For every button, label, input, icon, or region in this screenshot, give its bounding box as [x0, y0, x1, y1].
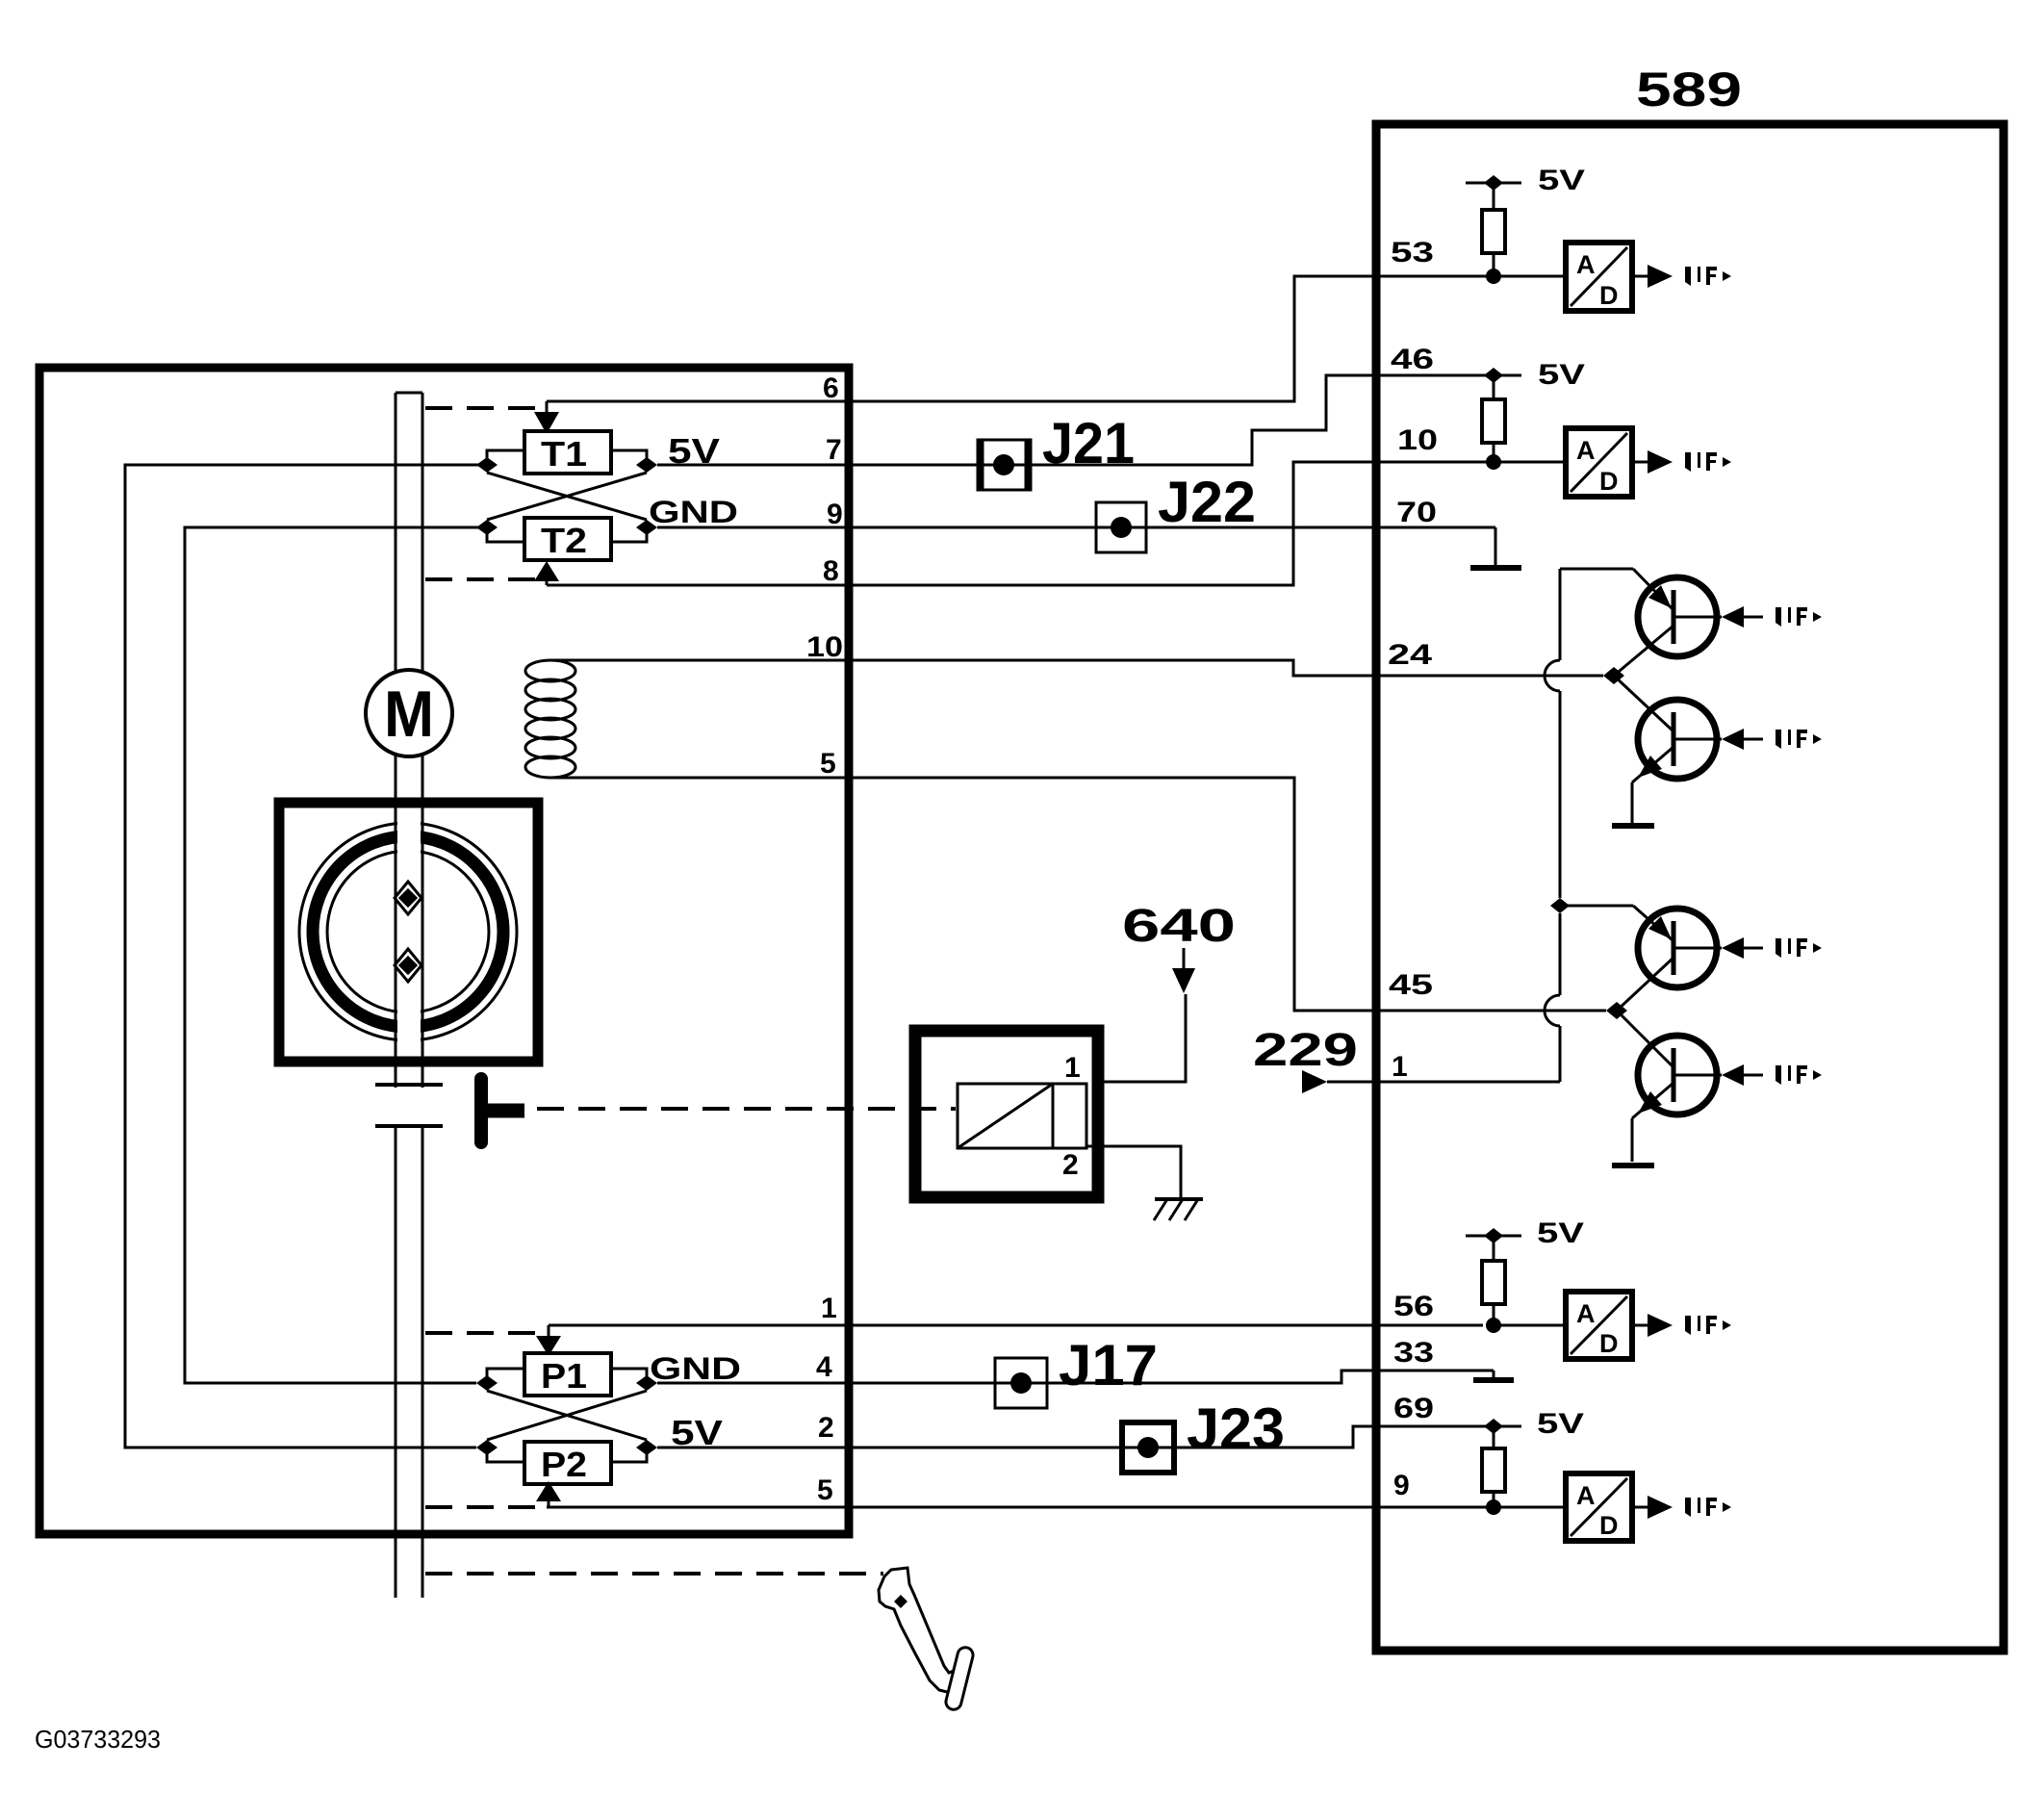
- T2 dashed linkage: [425, 577, 539, 581]
- pedal pivot dot: [894, 1595, 907, 1608]
- motor coil L: [549, 659, 853, 662]
- sensor T2: [524, 518, 611, 560]
- T wires feedback left GND: [185, 527, 487, 1383]
- 640 feed arrow: [1183, 948, 1186, 970]
- wire pin1 to ECM pin56: [853, 1324, 1483, 1327]
- resistor R53: [1493, 183, 1495, 210]
- junction node bus: [1550, 898, 1570, 913]
- transistor Q2: [1638, 700, 1717, 779]
- svg-text:5V: 5V: [671, 1413, 723, 1452]
- Q2 base arrow from uP: [1722, 729, 1744, 750]
- resistor R69: [1493, 1426, 1495, 1448]
- svg-text:P2: P2: [541, 1445, 587, 1484]
- throttle body unit box (left module): [39, 368, 849, 1534]
- svg-text:D: D: [1599, 467, 1619, 496]
- svg-text:D: D: [1599, 281, 1619, 310]
- svg-text:1: 1: [1064, 1052, 1081, 1084]
- P2 right node: [636, 1440, 657, 1455]
- svg-text:589: 589: [1636, 63, 1742, 116]
- 5V supply pin69: [1483, 1425, 1521, 1428]
- svg-text:10: 10: [806, 631, 843, 663]
- throttle bore thick ring: [313, 836, 503, 1027]
- A/D converter 3: [1566, 1292, 1632, 1359]
- wire pin6 to ECM pin53: [853, 276, 1494, 401]
- svg-text:A: A: [1576, 1481, 1596, 1510]
- P2 leads: [487, 1448, 524, 1462]
- Q4 base arrow from uP: [1722, 1064, 1744, 1086]
- svg-text:9: 9: [827, 499, 843, 530]
- svg-text:69: 69: [1393, 1393, 1434, 1424]
- junction pin53: [1486, 269, 1501, 284]
- T1 dashed linkage: [425, 406, 539, 410]
- connector J22: [1096, 502, 1146, 552]
- TP sensor 640 box: [915, 1031, 1098, 1197]
- connector J17: [995, 1358, 1047, 1408]
- svg-text:8: 8: [823, 555, 839, 587]
- svg-text:1: 1: [1392, 1051, 1408, 1083]
- 5V supply pin56: [1466, 1235, 1521, 1238]
- pin 1 wire: [549, 1324, 853, 1327]
- ground Q2: [1612, 823, 1654, 829]
- svg-text:229: 229: [1253, 1025, 1358, 1076]
- 5V supply pin53: [1466, 182, 1521, 185]
- svg-text:70: 70: [1396, 497, 1437, 528]
- svg-text:7: 7: [826, 434, 842, 466]
- svg-text:J21: J21: [1042, 411, 1135, 475]
- cross wire P1-P2: [487, 1391, 647, 1440]
- T2 leads: [487, 527, 524, 542]
- pedal linkage dashed: [425, 1572, 883, 1576]
- svg-text:G03733293: G03733293: [35, 1725, 161, 1754]
- svg-text:5: 5: [820, 748, 836, 780]
- pin 9 wire GND: [657, 526, 853, 529]
- plate screw lower: [395, 949, 422, 982]
- P1 right node: [636, 1375, 657, 1391]
- ground at pin70: [1495, 527, 1497, 566]
- wire coil pin10 to ECM pin24: [853, 660, 1603, 676]
- motor M: [366, 670, 452, 756]
- P2 dashed linkage: [425, 1505, 539, 1509]
- uP label 1: [1685, 267, 1731, 286]
- svg-text:1: 1: [821, 1293, 837, 1324]
- uP label 4: [1685, 1498, 1731, 1517]
- svg-text:53: 53: [1391, 237, 1434, 269]
- P1 left node: [476, 1375, 498, 1391]
- transistor Q4: [1638, 1036, 1717, 1114]
- throttle plate disc: [327, 851, 489, 1012]
- svg-text:46: 46: [1391, 344, 1434, 375]
- junction 24 wire: [1603, 667, 1624, 684]
- T1 leads: [487, 450, 524, 465]
- pedal pad: [944, 1646, 974, 1711]
- svg-text:J22: J22: [1158, 470, 1256, 534]
- uP label Q1: [1776, 607, 1822, 627]
- T2 right node: [636, 520, 657, 535]
- throttle shaft: [395, 393, 397, 1598]
- junction 45 wire: [1606, 1002, 1627, 1019]
- wire pin7 to ECM pin46: [853, 375, 1483, 465]
- svg-text:A: A: [1576, 250, 1596, 279]
- chassis ground (pin2): [1155, 1197, 1203, 1201]
- ground pin33: [1493, 1371, 1495, 1377]
- uP label 3: [1685, 1316, 1731, 1335]
- svg-text:P1: P1: [541, 1356, 587, 1396]
- sensor P1: [524, 1353, 611, 1396]
- throttle bore outer ring: [299, 823, 517, 1040]
- pin 8 wire: [547, 584, 853, 587]
- svg-text:A: A: [1576, 1299, 1596, 1328]
- svg-text:A: A: [1576, 436, 1596, 465]
- sensor linkage dashed: [537, 1107, 956, 1111]
- svg-text:5V: 5V: [668, 431, 720, 471]
- svg-text:10: 10: [1397, 424, 1438, 456]
- hop over 45 wire: [1545, 995, 1560, 1026]
- 5V supply pin46: [1483, 374, 1521, 377]
- connector J23: [1122, 1422, 1174, 1473]
- plate screw upper: [395, 882, 422, 914]
- TP sensor inner element: [958, 1084, 1086, 1148]
- Q3 base arrow from uP: [1722, 937, 1744, 959]
- pin 4 wire GND: [657, 1382, 853, 1385]
- pin 6 wire: [547, 400, 853, 403]
- pin 5 wire: [547, 1506, 853, 1509]
- svg-text:9: 9: [1393, 1470, 1410, 1501]
- ground Q4: [1612, 1163, 1654, 1168]
- Q1 base arrow from uP: [1722, 606, 1744, 628]
- A/D converter 1: [1566, 243, 1632, 311]
- T1 left node: [476, 457, 498, 473]
- throttle plate housing box: [279, 803, 538, 1062]
- uP label Q2: [1776, 730, 1822, 749]
- uP label Q4: [1776, 1065, 1822, 1085]
- T2 drive arrow: [546, 577, 549, 585]
- svg-text:56: 56: [1393, 1291, 1434, 1322]
- sensor pin1 wire: [1098, 994, 1186, 1082]
- svg-text:24: 24: [1388, 639, 1432, 671]
- resistor R56: [1493, 1236, 1495, 1261]
- sensor T1: [524, 431, 611, 474]
- P1 dashed linkage: [425, 1331, 539, 1335]
- P2 drive arrow: [548, 1499, 550, 1507]
- transistor Q1: [1638, 577, 1717, 656]
- junction pin10: [1486, 454, 1501, 470]
- svg-text:GND: GND: [649, 495, 738, 529]
- wire 229 to ECM pin1: [1327, 1081, 1560, 1084]
- uP label Q3: [1776, 938, 1822, 958]
- wire coil pin5 to ECM pin45: [853, 778, 1606, 1011]
- svg-text:2: 2: [1062, 1149, 1079, 1181]
- svg-text:2: 2: [818, 1412, 834, 1444]
- junction pin9: [1486, 1499, 1501, 1515]
- svg-text:33: 33: [1393, 1337, 1434, 1369]
- 229 feed arrow: [1302, 1070, 1327, 1093]
- resistor R46: [1493, 375, 1495, 399]
- T wires feedback left 5V: [125, 465, 487, 1448]
- svg-text:D: D: [1599, 1511, 1619, 1540]
- wire pin4 to ECM pin33: [853, 1371, 1494, 1383]
- emitter bus from pin1: [1559, 1026, 1562, 1082]
- svg-text:5V: 5V: [1538, 165, 1585, 196]
- cross wire T1-T2: [487, 473, 647, 520]
- sensor P2: [524, 1442, 611, 1484]
- svg-text:D: D: [1599, 1329, 1619, 1358]
- svg-text:5V: 5V: [1537, 1408, 1584, 1440]
- shaft channel through bore: [397, 816, 421, 1049]
- T1 right node: [636, 457, 657, 473]
- junction pin56: [1486, 1318, 1501, 1333]
- uP label 2: [1685, 452, 1731, 472]
- P1 drive arrow: [548, 1325, 550, 1338]
- svg-text:M: M: [384, 678, 434, 751]
- P2 left node: [476, 1440, 498, 1455]
- pin 7 wire 5V: [657, 464, 853, 467]
- P1 leads: [487, 1369, 524, 1383]
- hop over 24 wire: [1545, 660, 1560, 691]
- ECM module box 589: [1376, 124, 2004, 1651]
- transistor Q3: [1638, 909, 1717, 987]
- svg-text:640: 640: [1122, 901, 1236, 952]
- wire pin9 to ECM pin70: [853, 526, 1495, 529]
- svg-text:5V: 5V: [1538, 359, 1585, 391]
- wire pin2 to ECM pin69: [853, 1426, 1483, 1448]
- limp-home lever (T handle): [474, 1079, 488, 1142]
- accelerator pedal: [879, 1568, 958, 1693]
- svg-text:J23: J23: [1187, 1396, 1285, 1461]
- wire pin5 to ECM pin9: [853, 1506, 1494, 1509]
- svg-text:6: 6: [823, 372, 839, 404]
- svg-text:4: 4: [816, 1351, 832, 1383]
- return spring gap bars on shaft: [375, 1083, 443, 1087]
- T1 drive arrow: [546, 401, 549, 414]
- sensor pin2 wire: [1086, 1146, 1181, 1197]
- pin 2 wire 5V: [657, 1447, 853, 1449]
- svg-text:T2: T2: [541, 521, 587, 560]
- svg-text:5: 5: [817, 1474, 833, 1506]
- svg-text:J17: J17: [1059, 1333, 1158, 1397]
- svg-text:5V: 5V: [1537, 1217, 1584, 1249]
- svg-text:45: 45: [1389, 969, 1433, 1001]
- connector J21: [978, 440, 1031, 490]
- A/D converter 4: [1566, 1473, 1632, 1541]
- svg-text:GND: GND: [650, 1351, 741, 1386]
- svg-text:T1: T1: [541, 434, 587, 474]
- A/D converter 2: [1566, 428, 1632, 497]
- T2 left node: [476, 520, 498, 535]
- wire pin8 to ECM pin10: [853, 462, 1483, 585]
